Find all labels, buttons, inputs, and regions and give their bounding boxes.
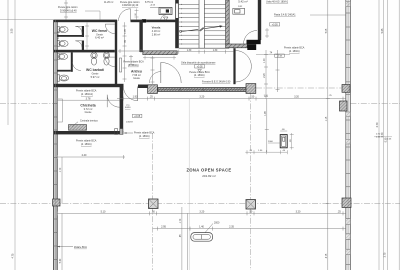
svg-text:0.90/040 (d) 40: 0.90/040 (d) 40 <box>122 4 139 7</box>
door WC femei (from antreu) <box>105 24 115 33</box>
svg-text:.25: .25 <box>337 210 341 213</box>
sink block left <box>57 75 68 81</box>
room label Chicineta <box>80 104 95 115</box>
svg-text:8.75 m²: 8.75 m² <box>145 1 153 4</box>
svg-text:2.35: 2.35 <box>229 226 234 229</box>
svg-text:(d. 180/A): (d. 180/A) <box>81 143 92 146</box>
chicineta bottom wall <box>54 131 124 134</box>
column at right end of mid wall <box>246 84 256 94</box>
far-left dimension lines <box>0 0 54 270</box>
room label Antreu <box>131 70 142 81</box>
urinal 1 <box>91 52 97 65</box>
svg-text:5.05: 5.05 <box>326 28 328 33</box>
dim line y=157 (chicineta to open space) <box>57 155 125 159</box>
stall door <box>72 62 81 71</box>
door antreu bottom opening (swings into open space) <box>123 87 137 101</box>
svg-text:Pasta S.4.E/ 240/A1: Pasta S.4.E/ 240/A1 <box>274 13 296 16</box>
axis vertical x=250.5 <box>249 93 251 270</box>
.74 dim + line at corridor <box>256 53 290 55</box>
door antreu->open space (double swing) <box>149 62 181 83</box>
svg-text:60/90: 60/90 <box>125 107 131 109</box>
svg-text:(d. 180/A): (d. 180/A) <box>194 74 205 77</box>
pier on right wall (corridor axis) <box>342 85 350 93</box>
chicineta door jambs bottom <box>115 129 123 135</box>
usa 60/90 label <box>125 104 131 109</box>
dim line below vesela wall <box>143 56 176 60</box>
svg-text:Usita 40 A.E/ 180/A1: Usita 40 A.E/ 180/A1 <box>266 1 289 4</box>
svg-text:5.40: 5.40 <box>60 258 62 263</box>
free column B (x250) <box>246 200 256 210</box>
dim line y=51 antreu top <box>118 49 143 53</box>
small dim line right side <box>374 136 392 138</box>
wall between WC femei and WC barbati <box>54 50 115 53</box>
svg-text:3.70: 3.70 <box>376 122 379 127</box>
svg-text:6.40 m²: 6.40 m² <box>95 36 104 40</box>
svg-text:D 90/040 (d) 40: D 90/040 (d) 40 <box>60 9 77 12</box>
free column A (x152) <box>149 199 159 209</box>
svg-text:3.20: 3.20 <box>294 96 299 99</box>
vesela left wall <box>139 20 142 52</box>
vertical dim x=62 (left, 1.70 / 5.40) <box>61 157 63 270</box>
svg-text:+0.05: +0.05 <box>197 66 204 68</box>
chicineta door arc <box>107 95 119 107</box>
svg-text:24/059: 24/059 <box>126 122 133 124</box>
toilet 2 <box>57 40 68 46</box>
svg-text:+0.05: +0.05 <box>134 116 141 118</box>
header over door top (black block) <box>142 19 146 22</box>
perete zidarie BCA (antreu) <box>123 60 144 66</box>
svg-text:2.86 m²: 2.86 m² <box>152 33 161 36</box>
window glazing mid-line right wall <box>347 0 349 270</box>
svg-text:.25: .25 <box>149 96 153 99</box>
right exterior wall with windows <box>346 0 351 270</box>
svg-text:+0.05: +0.05 <box>277 56 283 58</box>
leader 2000 <box>205 224 213 233</box>
svg-text:(d. 180/A): (d. 180/A) <box>289 50 300 53</box>
svg-text:1.15: 1.15 <box>326 116 328 121</box>
vertical dim x=277.5 (corridor right outer) <box>276 50 280 92</box>
small dims below box <box>265 28 269 38</box>
perete zidarie BCA (chicineta top) <box>76 90 97 96</box>
svg-text:Zidarie BCA: Zidarie BCA <box>74 246 87 249</box>
kitchen counter along left wall <box>57 99 62 122</box>
room label WC barbati <box>86 68 104 79</box>
antreu left closet edge <box>120 58 122 72</box>
perete gips carton (top mid) <box>104 1 140 7</box>
stall partition 1 <box>57 35 82 37</box>
dim chain x=152.5 (right of antreu) <box>151 56 155 84</box>
axis corridor y=88 <box>256 87 342 89</box>
toilet (left) <box>57 53 67 59</box>
room label ZONA OPEN SPACE <box>186 167 231 178</box>
small door arc near shaft <box>161 15 166 20</box>
pier on right wall (top) <box>346 2 351 7</box>
corridor left wall <box>233 48 235 84</box>
room bottom wall <box>226 44 248 48</box>
vertical dim x=266 (corridor right) <box>264 50 268 99</box>
stair right wall <box>226 0 230 44</box>
svg-text:Chicineta: Chicineta <box>80 104 95 108</box>
+0.05 box top right <box>270 23 280 27</box>
corridor double door arcs <box>236 51 252 83</box>
chicineta right wall <box>120 87 124 134</box>
toilet 1 <box>57 26 68 32</box>
level triangle on top wall <box>163 17 168 20</box>
vertical dim x=131 (antreu mid) <box>129 55 133 66</box>
sink counter fixture <box>233 8 245 14</box>
dim chain inside WC femei <box>85 23 89 50</box>
svg-text:1.45: 1.45 <box>265 111 267 116</box>
svg-text:5.97 m²: 5.97 m² <box>91 75 100 79</box>
axis line horizontal main (through columns) <box>0 203 400 205</box>
top wall right segment near stairs <box>163 20 176 23</box>
stair bottom edge <box>179 47 229 49</box>
perete zidarie BCA (right top) <box>284 47 305 53</box>
zidarie BCA label bottom left <box>57 246 87 249</box>
svg-text:1.00: 1.00 <box>264 58 266 63</box>
vertical dim chain x=124.5 (antreu) <box>123 22 127 82</box>
window ticks: left wall <box>54 33 58 260</box>
perete zidarie BCA (chicineta bottom) <box>76 140 97 146</box>
dim line y=152.2 (fixture position) <box>245 150 287 154</box>
stair left wall <box>175 0 179 48</box>
svg-text:WC femei: WC femei <box>92 29 108 33</box>
hatch piers on right wall <box>346 112 351 117</box>
vertical dim x=66 top <box>64 0 68 20</box>
perete zidarie BCA under grila <box>189 71 210 77</box>
svg-text:.50: .50 <box>249 210 253 213</box>
svg-text:1.30: 1.30 <box>213 50 218 52</box>
stall partition <box>71 52 73 71</box>
bottom wall of WC barbati / top of chicineta <box>54 84 124 87</box>
thin partition callout line x=189 <box>188 99 190 270</box>
axis line horizontal left stub <box>0 103 53 105</box>
svg-text:201.82 m²: 201.82 m² <box>202 174 216 178</box>
urinal 2 <box>103 52 109 65</box>
column on right wall (axis 2) <box>342 198 351 208</box>
svg-text:1.05: 1.05 <box>125 29 127 34</box>
svg-text:2.95: 2.95 <box>161 226 166 229</box>
+0.05 near vesela <box>150 4 156 6</box>
svg-text:4.75: 4.75 <box>12 253 15 258</box>
svg-text:(d. 180/A): (d. 180/A) <box>128 64 139 67</box>
room right wall <box>258 0 261 40</box>
room label WC femei <box>92 29 108 40</box>
column on right wall (axis 1) <box>340 101 348 111</box>
perete gips carton (top left) <box>58 6 100 20</box>
svg-text:4.75: 4.75 <box>326 253 328 258</box>
svg-text:2.40: 2.40 <box>82 154 87 157</box>
svg-text:3.72 m²: 3.72 m² <box>84 107 93 111</box>
svg-text:1.70: 1.70 <box>60 167 62 172</box>
svg-text:.50: .50 <box>151 210 155 213</box>
fixture dims <box>268 131 294 150</box>
svg-text:3.20: 3.20 <box>199 210 204 213</box>
svg-text:(d. 180/A): (d. 180/A) <box>139 135 150 138</box>
svg-text:Ferestre B.E.O 240/H 0.90: Ferestre B.E.O 240/H 0.90 <box>202 81 231 84</box>
room door arc <box>244 31 258 45</box>
+0.05 box at corridor right <box>275 54 284 58</box>
hydrant cabinet fixture right <box>280 135 287 148</box>
stair stringer <box>199 0 204 48</box>
room bottom-right corner block (L) <box>247 40 261 44</box>
top wall of sanitary block <box>54 20 117 23</box>
stall door arcs <box>75 26 82 33</box>
svg-text:7.96 m²: 7.96 m² <box>132 73 141 77</box>
svg-text:0.70: 0.70 <box>381 132 384 137</box>
vertical dims near bottom desk <box>182 207 188 270</box>
svg-text:+0.05: +0.05 <box>150 4 156 6</box>
door in top wall (WC lobby) <box>119 9 131 21</box>
wall stub left of column A <box>138 85 148 89</box>
svg-text:3.75: 3.75 <box>383 252 386 257</box>
vesela bottom wall <box>143 51 177 55</box>
small dim chain right of door <box>135 9 139 20</box>
svg-text:Centrala termica: Centrala termica <box>80 119 98 122</box>
+0.05 box (corridor) <box>195 65 205 72</box>
svg-text:5.05: 5.05 <box>381 28 384 33</box>
column on left wall (axis 2) <box>53 199 60 206</box>
svg-text:Vesela: Vesela <box>152 26 161 30</box>
+0.06 box (near chicineta door) <box>133 114 142 118</box>
svg-text:3.78: 3.78 <box>86 97 91 100</box>
svg-text:2000: 2000 <box>268 141 274 143</box>
svg-text:F 240/120: F 240/120 <box>58 30 60 41</box>
svg-text:WC barbati: WC barbati <box>86 68 104 72</box>
svg-text:Grila dispozitiv de acondicion: Grila dispozitiv de acondicionare <box>181 62 216 65</box>
vertical dim x=327.8 (full) <box>326 0 330 270</box>
svg-text:1.93: 1.93 <box>133 96 138 99</box>
svg-text:5.10: 5.10 <box>101 210 106 213</box>
stall partition 2 (vertical end walls) <box>82 26 84 37</box>
svg-text:1.30: 1.30 <box>187 50 192 52</box>
stair up-arrow <box>180 25 223 32</box>
svg-text:3.05: 3.05 <box>11 28 14 33</box>
left exterior wall (Zidarie BCA) <box>54 20 58 270</box>
svg-text:2000: 2000 <box>214 222 220 225</box>
room label Vesela <box>152 26 161 37</box>
reception desk (rounded) <box>191 233 213 242</box>
svg-text:+0.05: +0.05 <box>272 24 279 26</box>
svg-text:11.26 m²: 11.26 m² <box>104 1 113 4</box>
dim line below stairs y=51.7 <box>175 50 233 54</box>
svg-text:2.20: 2.20 <box>264 73 266 78</box>
svg-text:1.70: 1.70 <box>180 218 182 223</box>
svg-text:Gresie: Gresie <box>85 111 92 114</box>
dim line y=228.6 (bottom) <box>153 227 346 231</box>
WC femei / barbati right wall (vertical x115.6) <box>115 20 117 84</box>
svg-text:Gresie: Gresie <box>133 77 140 80</box>
svg-text:ZONA OPEN SPACE: ZONA OPEN SPACE <box>186 167 231 172</box>
svg-text:3.20: 3.20 <box>199 96 204 99</box>
glazing mid-line left wall <box>54 20 56 270</box>
shaft box <box>159 8 172 15</box>
svg-text:3.20: 3.20 <box>296 210 301 213</box>
svg-text:(d. 180/A1): (d. 180/A1) <box>81 93 93 96</box>
svg-text:1.40: 1.40 <box>199 226 204 229</box>
column at left end of mid wall <box>148 85 158 94</box>
far-right dimension lines <box>379 0 399 270</box>
perete zidarie BCA (right of chicineta) <box>124 132 155 138</box>
axis vertical x=152.5 <box>152 133 154 270</box>
mid wall left segment (WC block bottom is above) ; main mid wall with glazing <box>158 88 246 92</box>
vertical dim x=266.8 (1.45, below) <box>265 99 269 153</box>
door WC barbati (from antreu) <box>105 57 115 67</box>
dim line y=213.4 (below axis) <box>57 211 346 215</box>
dim line y=98.6 (upper, across open space) <box>117 97 346 101</box>
dim line y=100 (chicineta width 3.78) <box>57 98 119 102</box>
svg-text:5.42 m²: 5.42 m² <box>238 0 248 4</box>
stair treads <box>179 4 226 44</box>
small dim labels right wall area <box>376 134 392 141</box>
svg-text:.50: .50 <box>251 96 255 99</box>
boiler (centrala) hatched <box>69 125 87 131</box>
